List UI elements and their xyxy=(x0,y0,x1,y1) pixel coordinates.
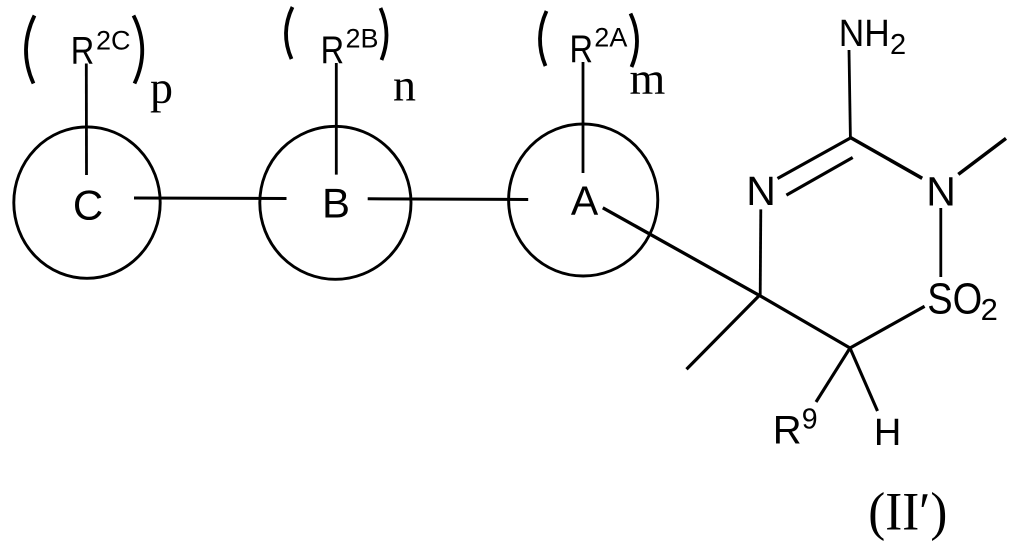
right parenthesis of (R2B) xyxy=(381,8,387,60)
bond B-A xyxy=(368,197,529,201)
svg-text:N: N xyxy=(746,168,776,214)
svg-text:N: N xyxy=(926,168,956,214)
bond quaternary C to N(left) xyxy=(759,209,762,295)
svg-text:(II′): (II′) xyxy=(868,481,947,541)
left parenthesis of (R2B) xyxy=(286,7,293,59)
ring/circle B xyxy=(260,126,411,279)
svg-text:2B: 2B xyxy=(346,24,379,54)
svg-text:9: 9 xyxy=(802,403,818,435)
svg-text:n: n xyxy=(393,60,416,111)
bond S to CH xyxy=(850,306,925,348)
svg-text:2A: 2A xyxy=(594,22,627,52)
svg-text:A: A xyxy=(571,177,599,223)
svg-text:p: p xyxy=(150,62,173,113)
right parenthesis of (R2A) xyxy=(631,14,638,68)
svg-text:R: R xyxy=(570,28,594,71)
bond CH to R9 xyxy=(816,348,850,402)
bond C(top) to N(right) xyxy=(850,138,922,179)
svg-text:R: R xyxy=(773,409,802,453)
svg-text:R: R xyxy=(321,29,345,72)
bond R2C to circle C xyxy=(85,64,88,176)
right parenthesis of (R2C) xyxy=(134,16,143,84)
svg-text:2C: 2C xyxy=(96,26,131,56)
ring/circle A xyxy=(509,124,658,276)
bond C-B xyxy=(134,197,287,201)
bond R2B to circle B xyxy=(335,63,338,175)
svg-text:C: C xyxy=(73,181,103,228)
svg-text:2: 2 xyxy=(981,292,998,327)
bond N(right) to S xyxy=(939,208,942,277)
ring/circle C xyxy=(14,127,160,278)
svg-text:R: R xyxy=(71,30,95,73)
svg-text:NH: NH xyxy=(839,13,890,55)
svg-text:H: H xyxy=(874,412,901,454)
methyl bond on quaternary C xyxy=(687,295,760,369)
left parenthesis of (R2C) xyxy=(26,16,35,84)
bond R2A to circle A xyxy=(582,62,585,173)
bond CH to H xyxy=(850,348,878,411)
double bond C=N line 1 xyxy=(778,138,851,179)
left parenthesis of (R2A) xyxy=(540,11,547,66)
svg-text:2: 2 xyxy=(890,29,906,61)
methyl bond on N(right) xyxy=(958,138,1006,174)
bond NH2 to ring carbon xyxy=(849,50,850,138)
double bond C=N line 2 xyxy=(786,158,852,196)
svg-text:m: m xyxy=(630,53,666,104)
svg-text:SO: SO xyxy=(927,275,982,324)
bond A to ring quaternary carbon xyxy=(603,208,760,296)
bond CH to quaternary C xyxy=(759,295,850,348)
svg-text:B: B xyxy=(322,180,350,227)
